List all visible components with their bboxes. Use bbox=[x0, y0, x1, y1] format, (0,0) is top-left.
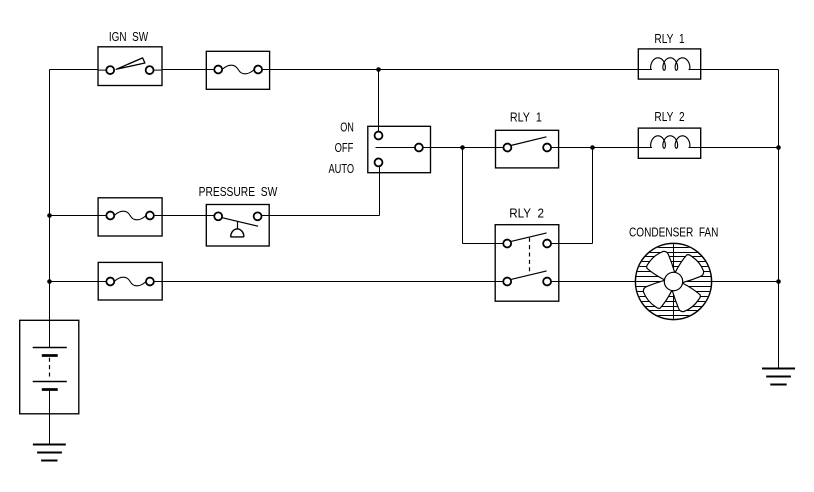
svg-text:AUTO: AUTO bbox=[329, 161, 355, 176]
svg-text:RLY 1: RLY 1 bbox=[654, 31, 684, 46]
svg-text:RLY 2: RLY 2 bbox=[509, 205, 544, 220]
svg-text:RLY 1: RLY 1 bbox=[510, 110, 542, 125]
svg-text:CONDENSER FAN: CONDENSER FAN bbox=[629, 225, 718, 240]
svg-text:PRESSURE SW: PRESSURE SW bbox=[199, 184, 278, 199]
svg-text:RLY 2: RLY 2 bbox=[654, 109, 684, 124]
svg-text:OFF: OFF bbox=[335, 140, 354, 155]
svg-text:IGN SW: IGN SW bbox=[109, 29, 149, 44]
svg-text:ON: ON bbox=[340, 120, 354, 135]
